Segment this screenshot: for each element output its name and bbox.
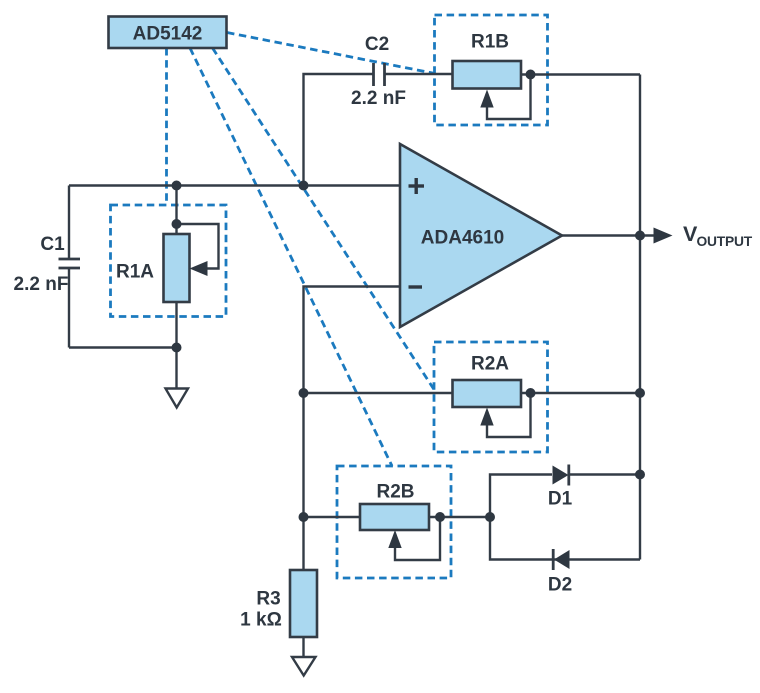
svg-text:AD5142: AD5142 (133, 24, 203, 45)
svg-text:R3: R3 (256, 589, 280, 610)
svg-text:ADA4610: ADA4610 (421, 228, 504, 249)
svg-text:1 kΩ: 1 kΩ (240, 610, 282, 631)
svg-text:R2B: R2B (376, 482, 414, 503)
svg-text:C2: C2 (365, 34, 389, 55)
svg-text:D2: D2 (548, 575, 572, 596)
svg-text:R1B: R1B (471, 32, 509, 53)
svg-text:D1: D1 (548, 489, 573, 510)
svg-text:R2A: R2A (471, 354, 509, 375)
svg-text:OUTPUT: OUTPUT (697, 234, 753, 249)
svg-text:R1A: R1A (116, 262, 154, 283)
svg-text:2.2 nF: 2.2 nF (14, 274, 69, 295)
svg-text:C1: C1 (40, 234, 65, 255)
svg-text:2.2 nF: 2.2 nF (351, 88, 406, 109)
